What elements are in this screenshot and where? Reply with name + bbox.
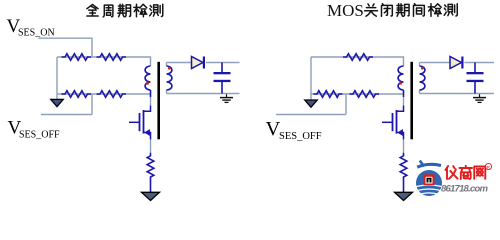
svg-text:SES_OFF: SES_OFF <box>279 131 322 142</box>
svg-text:MOS: MOS <box>327 1 364 20</box>
svg-text:SES_OFF: SES_OFF <box>19 130 60 141</box>
svg-text:861718.com: 861718.com <box>441 184 488 195</box>
svg-text:SES_ON: SES_ON <box>18 28 55 39</box>
